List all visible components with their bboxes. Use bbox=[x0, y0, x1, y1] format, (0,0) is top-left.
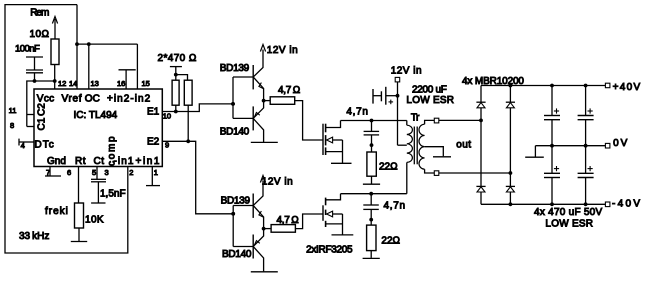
svg-text:11: 11 bbox=[9, 106, 17, 115]
svg-text:4: 4 bbox=[21, 141, 25, 150]
svg-text:4x 470 uF 50V: 4x 470 uF 50V bbox=[534, 207, 602, 218]
svg-text:7: 7 bbox=[46, 168, 50, 177]
svg-text:6: 6 bbox=[67, 168, 71, 177]
svg-text:4x MBR10200: 4x MBR10200 bbox=[462, 76, 524, 87]
svg-text:+in1: +in1 bbox=[136, 156, 162, 167]
svg-text:10: 10 bbox=[163, 112, 171, 121]
svg-text:Rt: Rt bbox=[75, 156, 86, 167]
svg-text:freki: freki bbox=[45, 206, 69, 217]
svg-text:12: 12 bbox=[58, 79, 66, 88]
svg-text:Vcc: Vcc bbox=[37, 94, 55, 105]
svg-text:OC: OC bbox=[85, 94, 100, 105]
svg-text:12V in: 12V in bbox=[267, 45, 298, 56]
svg-text:5: 5 bbox=[92, 168, 96, 177]
svg-text:4,7n: 4,7n bbox=[346, 106, 368, 117]
svg-text:16: 16 bbox=[117, 79, 125, 88]
svg-text:12V in: 12V in bbox=[391, 66, 422, 77]
svg-text:2: 2 bbox=[129, 168, 133, 177]
svg-text:14: 14 bbox=[69, 79, 77, 88]
svg-text:1: 1 bbox=[154, 168, 158, 177]
svg-text:15: 15 bbox=[142, 79, 150, 88]
svg-text:out: out bbox=[456, 140, 471, 151]
svg-text:9: 9 bbox=[165, 141, 169, 150]
svg-text:0V: 0V bbox=[613, 138, 629, 149]
svg-text:8: 8 bbox=[10, 121, 14, 130]
svg-text:LOW ESR: LOW ESR bbox=[545, 218, 593, 229]
svg-text:C2: C2 bbox=[37, 103, 48, 116]
svg-text:DTc: DTc bbox=[35, 140, 55, 151]
svg-text:C1: C1 bbox=[37, 117, 48, 130]
svg-text:BD140: BD140 bbox=[220, 126, 250, 137]
svg-text:BD139: BD139 bbox=[220, 63, 250, 74]
svg-text:Vref: Vref bbox=[62, 94, 83, 105]
svg-text:+in2-in2: +in2-in2 bbox=[107, 94, 151, 105]
svg-text:2xIRF3205: 2xIRF3205 bbox=[306, 245, 353, 256]
svg-text:100nF: 100nF bbox=[15, 44, 40, 55]
svg-text:BD139: BD139 bbox=[221, 196, 251, 207]
svg-text:BD140: BD140 bbox=[222, 249, 252, 260]
svg-text:Ct: Ct bbox=[94, 156, 105, 167]
svg-text:LOW ESR: LOW ESR bbox=[406, 95, 454, 106]
svg-text:10Ω: 10Ω bbox=[30, 29, 50, 40]
svg-text:33 kHz: 33 kHz bbox=[19, 231, 49, 242]
svg-text:+40V: +40V bbox=[613, 82, 642, 93]
svg-text:4,7 Ω: 4,7 Ω bbox=[277, 215, 300, 226]
svg-text:22Ω: 22Ω bbox=[381, 235, 400, 246]
svg-text:2*470 Ω: 2*470 Ω bbox=[158, 53, 197, 64]
svg-text:3: 3 bbox=[105, 168, 109, 177]
svg-text:E1: E1 bbox=[147, 107, 160, 118]
svg-text:E2: E2 bbox=[147, 137, 160, 148]
svg-text:-40V: -40V bbox=[612, 198, 642, 209]
svg-text:13: 13 bbox=[91, 79, 99, 88]
svg-text:Gnd: Gnd bbox=[47, 156, 66, 167]
svg-text:Tr: Tr bbox=[411, 113, 420, 124]
svg-text:12V in: 12V in bbox=[262, 176, 293, 187]
svg-text:4,7 Ω: 4,7 Ω bbox=[278, 85, 301, 96]
svg-text:IC: TL494: IC: TL494 bbox=[74, 110, 118, 121]
svg-text:4,7n: 4,7n bbox=[384, 200, 406, 211]
svg-text:Rem: Rem bbox=[30, 7, 49, 18]
svg-text:comp: comp bbox=[107, 135, 118, 166]
svg-text:1,5nF: 1,5nF bbox=[100, 189, 126, 200]
svg-text:22Ω: 22Ω bbox=[379, 162, 398, 173]
svg-text:10K: 10K bbox=[85, 215, 104, 226]
